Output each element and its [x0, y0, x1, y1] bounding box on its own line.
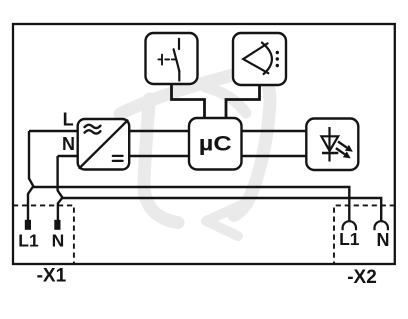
- svg-text:µC: µC: [199, 131, 232, 155]
- svg-text:L1: L1: [18, 231, 39, 251]
- svg-text:N: N: [62, 134, 75, 154]
- svg-text:N: N: [377, 230, 390, 250]
- svg-text:L: L: [63, 110, 74, 130]
- svg-text:L1: L1: [339, 229, 360, 249]
- svg-text:-X1: -X1: [37, 266, 67, 287]
- svg-text:-X2: -X2: [347, 267, 377, 288]
- svg-text:N: N: [52, 231, 65, 251]
